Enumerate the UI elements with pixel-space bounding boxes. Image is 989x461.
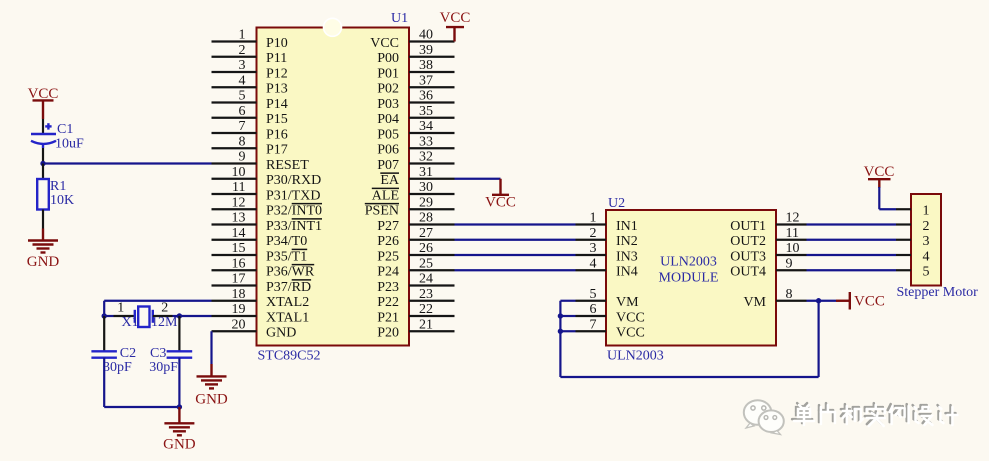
- svg-text:16: 16: [232, 256, 246, 271]
- watermark WeChat logo: [744, 400, 784, 434]
- wire VM loop left vertical: [559, 301, 561, 377]
- wire to U2 pin 7: [560, 330, 575, 332]
- svg-text:VM: VM: [616, 295, 639, 310]
- U1 pin 21 (P20): [377, 317, 454, 340]
- U2 pin 6 (VCC): [576, 302, 645, 325]
- U1 pin 3 (P12): [212, 58, 288, 81]
- part label STC89C52: [258, 349, 321, 364]
- wire VCC to motor pin 1: [879, 187, 896, 209]
- U1 pin 28 (P27): [377, 211, 454, 234]
- svg-text:1: 1: [923, 204, 930, 219]
- junction U2 pin 7 node: [558, 329, 563, 334]
- svg-text:P21: P21: [377, 310, 399, 325]
- U1 pin 11 (P31/TXD): [212, 180, 321, 203]
- svg-text:STC89C52: STC89C52: [258, 349, 321, 364]
- U2 pin 3 (IN3): [576, 241, 638, 264]
- U1 pin 16 (P36/WR): [212, 256, 315, 279]
- svg-text:P37/RD: P37/RD: [266, 280, 311, 295]
- svg-text:17: 17: [232, 272, 246, 287]
- svg-text:37: 37: [419, 73, 433, 88]
- svg-text:IN4: IN4: [616, 265, 638, 280]
- resistor R1 10K: [37, 164, 74, 229]
- svg-text:P01: P01: [377, 66, 399, 81]
- svg-text:P16: P16: [266, 127, 288, 142]
- svg-text:P05: P05: [377, 127, 399, 142]
- svg-text:1: 1: [239, 28, 246, 43]
- svg-text:P12: P12: [266, 66, 288, 81]
- svg-text:3: 3: [239, 58, 246, 73]
- svg-text:40: 40: [419, 28, 433, 43]
- wire node2 to C3: [178, 316, 180, 351]
- U1 pin 34 (P05): [377, 119, 454, 142]
- U2 pin 12 (OUT1): [730, 211, 806, 234]
- svg-text:5: 5: [590, 287, 597, 302]
- svg-text:25: 25: [419, 256, 433, 271]
- svg-text:IN3: IN3: [616, 249, 638, 264]
- svg-text:30pF: 30pF: [149, 360, 178, 375]
- svg-text:9: 9: [239, 150, 246, 165]
- connector pin 2: [896, 219, 930, 234]
- U1 pin 32 (P07): [377, 150, 454, 173]
- svg-text:28: 28: [419, 211, 433, 226]
- svg-text:GND: GND: [27, 254, 60, 270]
- U1 pin 17 (P37/RD): [212, 272, 312, 295]
- U2 pin 9 (OUT4): [730, 256, 806, 279]
- svg-text:GND: GND: [195, 391, 228, 407]
- svg-text:5: 5: [923, 265, 930, 280]
- svg-text:3: 3: [923, 234, 930, 249]
- svg-text:P06: P06: [377, 143, 399, 158]
- svg-text:GND: GND: [163, 437, 196, 453]
- svg-text:VCC: VCC: [616, 326, 645, 341]
- wire XTAL1 net: [179, 315, 211, 317]
- U1 pin 27 (P26): [377, 226, 454, 249]
- svg-text:MODULE: MODULE: [659, 271, 719, 286]
- connector pin 1: [896, 204, 930, 219]
- U1 pin 23 (P22): [377, 287, 454, 310]
- svg-text:R1: R1: [50, 179, 66, 194]
- svg-text:VM: VM: [743, 295, 766, 310]
- ground GND (crystal): [163, 407, 196, 453]
- svg-text:P20: P20: [377, 326, 399, 341]
- U1 pin 36 (P03): [377, 89, 454, 112]
- svg-text:X1: X1: [122, 315, 139, 330]
- svg-text:PSEN: PSEN: [365, 204, 399, 219]
- svg-text:9: 9: [786, 256, 793, 271]
- svg-text:4: 4: [239, 73, 246, 88]
- wire OUT4 to motor pin 5: [807, 269, 897, 271]
- U1 pin 40 (VCC): [370, 28, 454, 51]
- svg-text:30: 30: [419, 180, 433, 195]
- wire to U2 pin 6: [560, 315, 575, 317]
- U1 pin 24 (P23): [377, 272, 454, 295]
- svg-text:29: 29: [419, 195, 433, 210]
- IC U1 STC89C52 body: [257, 18, 410, 345]
- junction node crystal pin 2: [177, 313, 182, 318]
- svg-text:VCC: VCC: [864, 164, 895, 180]
- svg-text:34: 34: [419, 119, 433, 134]
- U1 pin 12 (P32/INT0): [212, 195, 323, 218]
- svg-text:Stepper Motor: Stepper Motor: [897, 285, 979, 300]
- svg-text:RESET: RESET: [266, 158, 309, 173]
- svg-text:24: 24: [419, 272, 433, 287]
- capacitor C3 30pF: [149, 346, 192, 375]
- svg-text:ULN2003: ULN2003: [607, 349, 664, 364]
- U2 pin 7 (VCC): [576, 317, 645, 340]
- svg-text:32: 32: [419, 150, 433, 165]
- junction node RESET: [40, 161, 45, 166]
- capacitor C1 10uF: [31, 122, 84, 152]
- U1 pin 8 (P17): [212, 134, 288, 157]
- power VCC (U1 pin 40): [440, 10, 471, 42]
- U1 pin 38 (P01): [377, 58, 454, 81]
- wire node1 to C2: [103, 316, 105, 351]
- U2 pin 2 (IN2): [576, 226, 638, 249]
- svg-text:2: 2: [239, 43, 246, 58]
- svg-text:10: 10: [232, 165, 246, 180]
- U1 pin 1 (P10): [212, 28, 288, 51]
- U1 pin 29 (PSEN): [365, 195, 455, 218]
- svg-text:P10: P10: [266, 36, 288, 51]
- U1 pin 10 (P30/RXD): [212, 165, 322, 188]
- U1 pin 6 (P15): [212, 104, 288, 127]
- svg-text:P02: P02: [377, 82, 399, 97]
- svg-text:OUT4: OUT4: [730, 265, 766, 280]
- wire C2 down: [103, 358, 105, 407]
- ground GND (below R1): [27, 229, 60, 271]
- svg-text:P00: P00: [377, 51, 399, 66]
- part label Stepper Motor: [897, 285, 979, 300]
- svg-text:P13: P13: [266, 82, 288, 97]
- svg-text:2: 2: [161, 300, 168, 315]
- svg-text:11: 11: [786, 226, 799, 241]
- svg-text:OUT3: OUT3: [730, 249, 766, 264]
- svg-text:U1: U1: [391, 11, 408, 26]
- U1 pin 15 (P35/T1): [212, 241, 308, 264]
- svg-text:30pF: 30pF: [103, 360, 132, 375]
- svg-text:C3: C3: [150, 346, 166, 361]
- U1 pin 20 (GND): [212, 317, 297, 340]
- svg-text:11: 11: [232, 180, 245, 195]
- connector pin 4: [896, 249, 930, 264]
- wire C3 down: [178, 358, 180, 407]
- svg-text:1: 1: [590, 211, 597, 226]
- svg-text:GND: GND: [266, 326, 296, 341]
- junction node crystal pin 1: [102, 313, 107, 318]
- wire EA to VCC: [455, 178, 501, 180]
- svg-text:12: 12: [786, 211, 800, 226]
- svg-text:VCC: VCC: [616, 310, 645, 325]
- svg-text:C2: C2: [120, 346, 136, 361]
- connector pin 5: [896, 265, 930, 280]
- svg-text:IN1: IN1: [616, 219, 638, 234]
- svg-text:39: 39: [419, 43, 433, 58]
- wire bottom crystal gnd net: [104, 406, 179, 408]
- svg-text:10K: 10K: [50, 193, 74, 208]
- svg-text:P31/TXD: P31/TXD: [266, 188, 320, 203]
- svg-text:C1: C1: [57, 122, 73, 137]
- watermark text (hand-drawn CJK strokes): [792, 403, 957, 426]
- junction node gnd: [177, 404, 182, 409]
- U1 pin 5 (P14): [212, 89, 288, 112]
- wire P27 to IN1: [455, 223, 576, 225]
- power VCC (VM supply): [836, 292, 885, 310]
- svg-text:P26: P26: [377, 234, 399, 249]
- svg-text:VCC: VCC: [485, 195, 516, 211]
- svg-text:P34/T0: P34/T0: [266, 234, 307, 249]
- svg-text:7: 7: [590, 317, 597, 332]
- U1 pin 14 (P34/T0): [212, 226, 308, 249]
- svg-text:P04: P04: [377, 112, 399, 127]
- svg-text:P32/INT0: P32/INT0: [266, 204, 322, 219]
- U2 pin 1 (IN1): [576, 211, 638, 234]
- svg-text:P14: P14: [266, 97, 288, 112]
- wire OUT3 to motor pin 4: [807, 254, 897, 256]
- U1 pin 31 (EA): [380, 165, 454, 188]
- crystal X1 12M: [104, 300, 179, 330]
- designator U2: [608, 196, 625, 211]
- svg-text:VCC: VCC: [370, 36, 399, 51]
- svg-text:P30/RXD: P30/RXD: [266, 173, 321, 188]
- U1 pin 25 (P24): [377, 256, 454, 279]
- wire OUT1 to motor pin 2: [807, 223, 897, 225]
- U1 pin 39 (P00): [377, 43, 454, 66]
- wire P26 to IN2: [455, 239, 576, 241]
- svg-text:5: 5: [239, 89, 246, 104]
- svg-text:U2: U2: [608, 196, 625, 211]
- svg-text:1: 1: [117, 300, 124, 315]
- svg-text:VCC: VCC: [440, 10, 471, 26]
- IC U2 ULN2003 MODULE body: [606, 210, 776, 346]
- svg-text:8: 8: [786, 287, 793, 302]
- U1 pin 2 (P11): [212, 43, 288, 66]
- svg-text:4: 4: [923, 249, 930, 264]
- svg-text:23: 23: [419, 287, 433, 302]
- wire U1 GND pin to ground: [210, 331, 212, 364]
- svg-text:P36/WR: P36/WR: [266, 265, 315, 280]
- U1 pin 30 (ALE): [372, 180, 455, 203]
- svg-text:27: 27: [419, 226, 433, 241]
- svg-text:OUT2: OUT2: [730, 234, 766, 249]
- ground GND (U1 pin 20): [195, 364, 228, 407]
- svg-text:6: 6: [590, 302, 597, 317]
- svg-text:10uF: 10uF: [55, 137, 84, 152]
- svg-text:6: 6: [239, 104, 246, 119]
- U1 pin 9 (RESET): [212, 150, 310, 173]
- svg-text:P03: P03: [377, 97, 399, 112]
- svg-text:4: 4: [590, 256, 597, 271]
- svg-text:XTAL2: XTAL2: [266, 295, 309, 310]
- svg-text:OUT1: OUT1: [730, 219, 766, 234]
- junction U2 pin 6 node: [558, 313, 563, 318]
- wire XTAL2 net: [104, 301, 211, 316]
- wire VM loop bottom: [560, 376, 818, 378]
- svg-text:XTAL1: XTAL1: [266, 310, 309, 325]
- connector Stepper Motor body: [911, 194, 941, 286]
- wire VM loop right vertical: [817, 301, 819, 377]
- U2 pin 10 (OUT3): [730, 241, 806, 264]
- svg-text:18: 18: [232, 287, 246, 302]
- svg-text:22: 22: [419, 302, 433, 317]
- svg-text:15: 15: [232, 241, 246, 256]
- svg-text:2: 2: [590, 226, 597, 241]
- svg-text:P15: P15: [266, 112, 288, 127]
- U1 pin 7 (P16): [212, 119, 288, 142]
- svg-text:P25: P25: [377, 249, 399, 264]
- U2 pin 11 (OUT2): [730, 226, 806, 249]
- svg-text:3: 3: [590, 241, 597, 256]
- U1 pin 22 (P21): [377, 302, 454, 325]
- svg-text:ALE: ALE: [372, 188, 399, 203]
- U2 pin 4 (IN4): [576, 256, 638, 279]
- svg-text:10: 10: [786, 241, 800, 256]
- svg-text:38: 38: [419, 58, 433, 73]
- svg-text:P27: P27: [377, 219, 399, 234]
- svg-text:35: 35: [419, 104, 433, 119]
- svg-text:ULN2003: ULN2003: [660, 255, 717, 270]
- U1 pin 13 (P33/INT1): [212, 211, 323, 234]
- svg-text:P22: P22: [377, 295, 399, 310]
- U1 pin 26 (P25): [377, 241, 454, 264]
- wire OUT2 to motor pin 3: [807, 239, 897, 241]
- U1 pin 37 (P02): [377, 73, 454, 96]
- capacitor C2 30pF: [91, 346, 136, 375]
- svg-text:13: 13: [232, 211, 246, 226]
- power VCC (EA pull-up): [485, 179, 516, 211]
- U1 pin 4 (P13): [212, 73, 288, 96]
- svg-text:P17: P17: [266, 143, 288, 158]
- svg-text:7: 7: [239, 119, 246, 134]
- wire RESET net to U1 pin 9: [43, 162, 212, 164]
- junction VM node: [816, 298, 821, 303]
- svg-text:33: 33: [419, 134, 433, 149]
- svg-text:21: 21: [419, 317, 433, 332]
- svg-text:12: 12: [232, 195, 246, 210]
- svg-text:P07: P07: [377, 158, 399, 173]
- wire P25 to IN3: [455, 254, 576, 256]
- power VCC (motor pin 1): [864, 164, 895, 188]
- wire P24 to IN4: [455, 269, 576, 271]
- svg-text:36: 36: [419, 89, 433, 104]
- svg-text:2: 2: [923, 219, 930, 234]
- svg-text:P33/INT1: P33/INT1: [266, 219, 322, 234]
- wire VCC to C1: [42, 119, 44, 134]
- svg-text:19: 19: [232, 302, 246, 317]
- U2 pin 8 (VM): [743, 287, 806, 310]
- svg-text:P24: P24: [377, 265, 399, 280]
- svg-text:VCC: VCC: [854, 294, 885, 310]
- svg-text:IN2: IN2: [616, 234, 638, 249]
- wire VM pin8 to VCC: [807, 300, 837, 302]
- U1 pin 35 (P04): [377, 104, 454, 127]
- svg-text:14: 14: [232, 226, 246, 241]
- U2 pin 5 (VM): [576, 287, 640, 310]
- svg-text:EA: EA: [380, 173, 400, 188]
- power VCC (reset circuit): [28, 86, 59, 119]
- wire C1 to node: [42, 148, 44, 164]
- svg-text:31: 31: [419, 165, 433, 180]
- svg-text:P35/T1: P35/T1: [266, 249, 307, 264]
- svg-text:P23: P23: [377, 280, 399, 295]
- svg-text:8: 8: [239, 134, 246, 149]
- svg-text:20: 20: [232, 317, 246, 332]
- U1 pin 19 (XTAL1): [212, 302, 310, 325]
- part label ULN2003: [607, 349, 664, 364]
- svg-text:12M: 12M: [151, 315, 178, 330]
- svg-text:P11: P11: [266, 51, 287, 66]
- connector pin 3: [896, 234, 930, 249]
- designator U1: [391, 11, 408, 26]
- svg-text:26: 26: [419, 241, 433, 256]
- U1 pin 33 (P06): [377, 134, 454, 157]
- U1 pin 18 (XTAL2): [212, 287, 310, 310]
- wire to U2 pin 5: [560, 300, 575, 302]
